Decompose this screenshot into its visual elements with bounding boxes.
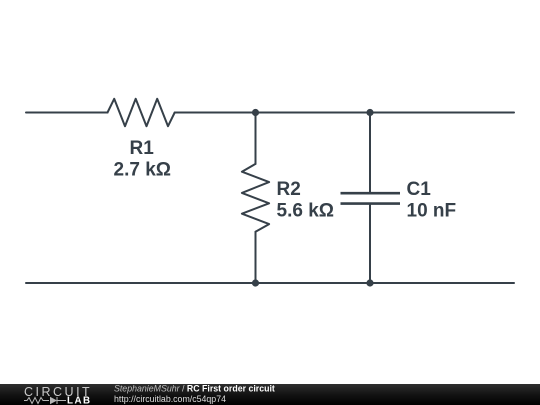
svg-text:2.7 kΩ: 2.7 kΩ	[114, 160, 172, 181]
svg-text:LAB: LAB	[67, 396, 92, 405]
CircuitLab logo schematic icon (resistor + diode wire)	[24, 397, 66, 404]
CircuitLab logo diode triangle	[50, 397, 57, 404]
wire R2 branch upper	[255, 113, 257, 164]
wire top-left segment	[26, 112, 108, 114]
svg-text:R1: R1	[130, 138, 155, 159]
resistor R1	[108, 99, 175, 126]
node junction bottom C1	[366, 279, 373, 286]
node junction top C1	[366, 109, 373, 116]
svg-text:StephanieMSuhr / RC First orde: StephanieMSuhr / RC First order circuit	[114, 384, 275, 394]
svg-text:http://circuitlab.com/c54qp74: http://circuitlab.com/c54qp74	[114, 394, 226, 404]
svg-text:5.6 kΩ: 5.6 kΩ	[277, 201, 335, 222]
footer bar	[0, 384, 540, 405]
node junction top R2	[252, 109, 259, 116]
wire C1 branch upper	[369, 113, 371, 193]
svg-text:R2: R2	[277, 179, 301, 200]
svg-text:10 nF: 10 nF	[407, 201, 457, 222]
svg-text:C1: C1	[407, 179, 432, 200]
wire C1 branch lower	[369, 205, 371, 283]
resistor R2	[242, 164, 269, 232]
wire R2 branch lower	[255, 232, 257, 283]
node junction bottom R2	[252, 279, 259, 286]
wire top-right segment	[175, 112, 514, 114]
capacitor C1	[341, 193, 401, 203]
wire bottom segment	[26, 282, 514, 284]
